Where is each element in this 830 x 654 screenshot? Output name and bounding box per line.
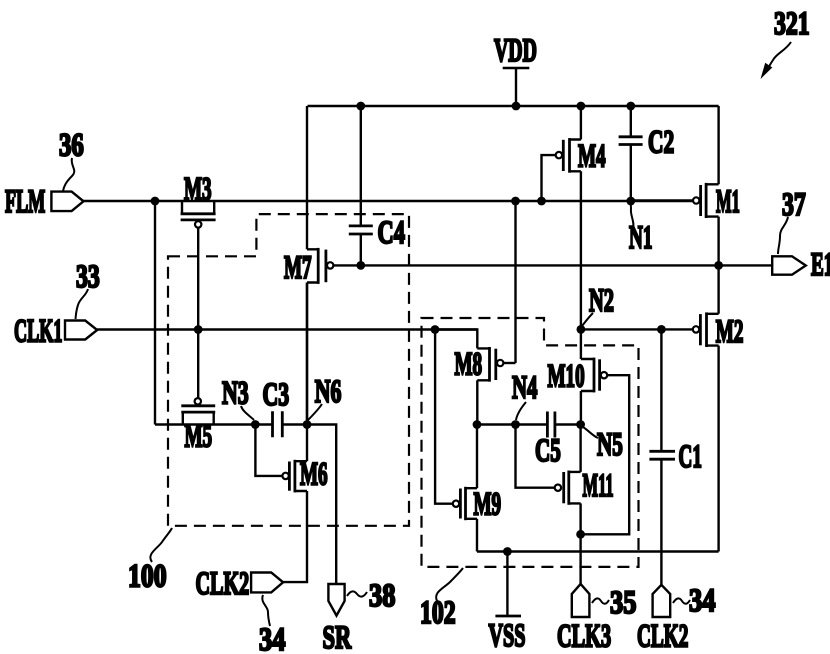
port CLK2 left arrow — [251, 573, 283, 593]
node dot N2 at C1 — [657, 325, 666, 334]
svg-text:N5: N5 — [597, 425, 623, 462]
leader 33 to CLK1 — [76, 289, 89, 319]
wire x515 vertical N1 to M8 gate — [514, 201, 516, 363]
transistor M3 — [181, 202, 216, 228]
leader 34 to CLK2 — [262, 595, 270, 626]
ground VSS — [495, 552, 521, 617]
svg-text:N4: N4 — [512, 368, 538, 405]
node dot N1 at M4 gate — [537, 197, 546, 206]
wire N2 line — [581, 328, 662, 330]
node junction on rail at C2 — [626, 102, 635, 111]
transistor M5 — [155, 398, 255, 424]
transistor M2 — [661, 265, 718, 551]
transistor M9 — [435, 330, 477, 552]
svg-text:35: 35 — [610, 584, 636, 620]
arrow 321 — [761, 42, 792, 79]
svg-text:C2: C2 — [648, 124, 674, 161]
transistor M7 — [307, 106, 333, 425]
svg-text:M8: M8 — [455, 345, 483, 382]
node dot M11 source CLK3 — [576, 530, 585, 539]
node dot VSS — [503, 547, 512, 556]
svg-text:34: 34 — [259, 621, 285, 654]
port CLK3 arrow — [572, 584, 590, 617]
node dot CLK1 at x198 — [194, 325, 203, 334]
transistor M10 — [581, 329, 630, 534]
capacitor C3 — [255, 411, 307, 437]
node dot CLK1 end — [431, 325, 440, 334]
transistor M6 — [255, 425, 307, 493]
svg-text:C5: C5 — [535, 431, 561, 468]
svg-text:VSS: VSS — [489, 617, 526, 653]
node dot N3 — [251, 420, 260, 429]
port E1 arrow — [772, 256, 806, 274]
wire N6 down to M6 — [306, 425, 308, 462]
svg-text:CLK2: CLK2 — [637, 617, 688, 654]
wire VDD rail — [308, 105, 719, 107]
svg-text:CLK3: CLK3 — [557, 618, 611, 654]
wire FLM branch down to M5 — [154, 201, 156, 425]
transistor M11 — [555, 425, 581, 535]
svg-text:E1: E1 — [811, 246, 830, 283]
wire N6 up to M7 — [306, 283, 308, 425]
leader N1 — [631, 204, 634, 229]
wire M3 gate down to M5 gate — [197, 228, 199, 399]
capacitor C2 — [619, 106, 643, 201]
svg-text:C4: C4 — [378, 215, 405, 251]
wire CLK1 line — [97, 328, 477, 330]
wire CLK3 vertical — [579, 534, 581, 584]
wire E1 line — [333, 264, 772, 266]
svg-text:M9: M9 — [474, 485, 502, 522]
svg-text:C1: C1 — [679, 438, 702, 475]
node dot N1 at x515.5 — [511, 197, 520, 206]
port CLK2 bottom arrow — [653, 585, 671, 617]
svg-text:37: 37 — [782, 186, 806, 223]
svg-text:100: 100 — [128, 559, 167, 595]
node dot E1 — [714, 261, 723, 270]
svg-text:M2: M2 — [716, 313, 744, 350]
svg-text:N6: N6 — [315, 374, 342, 411]
transistor M1 — [631, 106, 719, 265]
leader N2 — [582, 313, 593, 326]
dashed box 100 — [168, 214, 409, 526]
svg-text:34: 34 — [689, 582, 715, 618]
leader N5 — [583, 427, 598, 438]
svg-text:M1: M1 — [716, 183, 740, 220]
wire N6 to SR — [307, 425, 336, 585]
svg-text:CLK1: CLK1 — [14, 312, 62, 349]
node dot C4 bottom — [356, 261, 365, 270]
svg-text:M7: M7 — [284, 249, 312, 286]
svg-text:38: 38 — [369, 577, 395, 613]
leader 37 — [778, 217, 788, 254]
svg-text:FLM: FLM — [5, 182, 45, 219]
node dot N1 at C2 — [626, 197, 635, 206]
leader 38 tilde — [347, 591, 367, 596]
svg-text:CLK2: CLK2 — [196, 565, 250, 601]
wire SR vertical handled above; SR arrow — [328, 584, 344, 616]
transistor M8 — [435, 330, 516, 425]
svg-text:M11: M11 — [583, 467, 614, 504]
wire M6 bottom to CLK2 — [283, 491, 307, 582]
node dot N2 — [577, 325, 586, 334]
leader 36 to FLM — [63, 158, 74, 191]
wire N1 line (FLM row) — [84, 200, 694, 202]
port CLK1 arrow — [65, 321, 97, 340]
leader 35 tilde — [592, 598, 609, 603]
svg-text:102: 102 — [420, 594, 456, 631]
capacitor C1 — [649, 329, 675, 584]
dashed box 102 — [422, 318, 639, 567]
capacitor C4 — [349, 106, 373, 265]
node dot FLM branch — [151, 197, 160, 206]
wire bottom bus — [477, 550, 719, 552]
svg-text:M10: M10 — [548, 357, 585, 394]
leader N6 — [308, 404, 322, 420]
node dot N4 left — [473, 420, 482, 429]
svg-text:VDD: VDD — [494, 32, 537, 68]
node junction on rail at C4 — [356, 102, 365, 111]
port FLM arrow — [51, 192, 83, 212]
svg-text:M4: M4 — [578, 137, 606, 174]
wire N4 dot down to M11 gate — [516, 425, 555, 488]
svg-text:SR: SR — [323, 620, 352, 654]
leader 100 — [150, 528, 172, 562]
svg-text:N3: N3 — [222, 375, 249, 412]
svg-text:321: 321 — [774, 5, 810, 42]
wire N4 line — [477, 423, 581, 425]
capacitor C5 — [547, 412, 555, 438]
leader N4 — [516, 402, 526, 420]
leader 34 tilde — [673, 598, 690, 603]
node dot N6 — [303, 420, 312, 429]
leader 102 — [436, 568, 463, 601]
node junction on rail at VDD — [512, 102, 521, 111]
svg-text:M5: M5 — [185, 417, 213, 454]
node dot N5 — [576, 420, 585, 429]
svg-text:M6: M6 — [300, 455, 328, 492]
leader N3 — [241, 406, 254, 420]
node dot N4 at x515 — [511, 420, 520, 429]
VDD symbol — [503, 68, 530, 106]
transistor M4 — [542, 106, 581, 329]
svg-text:C3: C3 — [263, 377, 290, 414]
svg-text:M3: M3 — [184, 170, 212, 207]
node junction on rail at M4 — [577, 102, 586, 111]
